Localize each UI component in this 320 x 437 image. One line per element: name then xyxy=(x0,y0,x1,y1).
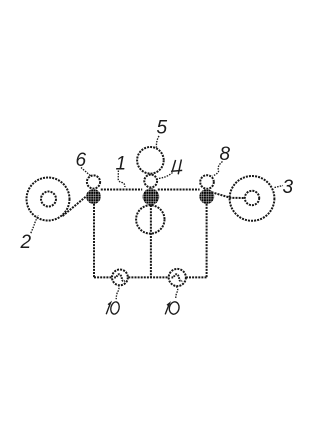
wire right vertical xyxy=(206,204,208,278)
wire bottom segment c xyxy=(186,276,207,278)
generator 10 left sine xyxy=(114,274,125,281)
generator 10 right sine xyxy=(172,274,183,281)
reel 2 hub xyxy=(41,192,56,207)
svg-text:1: 1 xyxy=(116,154,127,175)
generator 10 left xyxy=(112,270,128,286)
leader for 10 right xyxy=(176,286,178,299)
label 4 (hand style open-top four) xyxy=(171,160,182,175)
wire bottom segment a xyxy=(94,276,112,278)
svg-text:5: 5 xyxy=(157,118,168,139)
leader for 4 xyxy=(158,173,173,179)
node roller 9 (right drive, filled) xyxy=(199,189,214,204)
leader for 3 xyxy=(275,186,284,188)
svg-text:6: 6 xyxy=(76,150,87,171)
label 10 left xyxy=(106,301,120,315)
generator 10 right xyxy=(169,269,186,286)
wire tape from reel 2 to roller 7 xyxy=(63,196,87,216)
wire bottom segment b xyxy=(128,276,168,278)
leader for 10 left xyxy=(116,285,119,299)
svg-text:8: 8 xyxy=(220,144,231,165)
wire tape path 1 (left span) xyxy=(101,189,142,191)
roller 4 (small center) xyxy=(144,175,157,188)
roller 5 (top big) xyxy=(137,147,164,174)
wire tape to reel 3 xyxy=(212,192,246,198)
wire center vertical xyxy=(150,205,152,277)
leader for 2 xyxy=(31,215,39,233)
leader for 8 xyxy=(213,162,223,177)
reel 3 hub xyxy=(245,191,259,205)
svg-text:2: 2 xyxy=(20,232,32,253)
roller lower center xyxy=(136,205,164,233)
roller 8 (idler, right top) xyxy=(200,175,214,189)
leader for 6 xyxy=(81,168,90,176)
reel 3 outer xyxy=(230,176,275,221)
svg-text:3: 3 xyxy=(283,177,294,198)
roller 6 (idler, left top) xyxy=(87,175,100,188)
reel 2 outer xyxy=(27,178,70,221)
leader for 1 xyxy=(118,171,125,188)
label 10 right xyxy=(165,301,180,315)
wire tape path 1 (right span) xyxy=(158,189,200,191)
node roller 7 (left drive, filled) xyxy=(86,189,101,204)
node center drive roller (filled) xyxy=(143,188,160,205)
leader for 5 xyxy=(156,136,159,148)
wire left vertical xyxy=(93,204,95,278)
